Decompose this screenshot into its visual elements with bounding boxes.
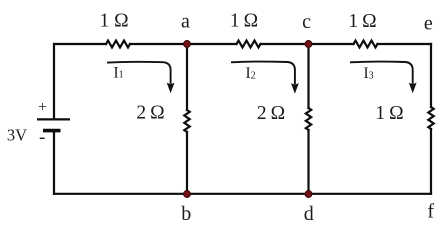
svg-text:1 Ω: 1 Ω — [99, 10, 128, 31]
current arrow I2 (loop 2, bends down toward R5) — [231, 62, 295, 84]
svg-text:-: - — [39, 127, 45, 148]
wire: branch a-b lower segment (R4 to node b) — [186, 132, 188, 194]
node b (junction dot) — [184, 191, 191, 198]
wire: bottom, node d to corner f — [309, 193, 432, 195]
arrowhead of I1 — [167, 83, 175, 94]
svg-text:a: a — [181, 11, 190, 33]
battery V1 3V: negative plate (short thick) — [43, 129, 61, 133]
svg-text:1 Ω: 1 Ω — [375, 103, 403, 124]
wire: node a to R2 — [187, 43, 237, 45]
wire: left edge, battery negative plate down to bottom corner — [53, 132, 55, 194]
wire: top, left corner to R1 — [54, 43, 106, 45]
wire: branch c-d upper segment (node c to R5) — [307, 44, 309, 108]
resistor R1 1-ohm (top left, between corner and node a) — [106, 41, 130, 48]
resistor R4 2-ohm (vertical, branch a-b) — [184, 110, 189, 132]
wire: bottom, left corner to node b — [54, 193, 187, 195]
wire: node c to R3 — [309, 43, 354, 45]
resistor R3 1-ohm (top right, between node c and node e) — [354, 41, 378, 48]
svg-text:2 Ω: 2 Ω — [257, 103, 285, 124]
svg-text:1 Ω: 1 Ω — [348, 11, 376, 32]
wire: left edge, top corner down to battery positive plate — [53, 44, 55, 118]
battery V1 3V: positive plate (long) — [37, 118, 70, 120]
resistor R6 1-ohm (vertical, branch e-f) — [428, 107, 433, 129]
wire: R1 to node a — [130, 43, 187, 45]
svg-text:b: b — [181, 203, 191, 225]
arrowhead of I3 — [409, 83, 417, 94]
wire: bottom, node b to node d — [187, 193, 309, 195]
node c (junction dot) — [305, 41, 312, 48]
svg-text:3V: 3V — [7, 126, 27, 145]
current arrow I1 (loop 1, bends down toward R4) — [107, 62, 171, 84]
wire: right edge lower segment (R6 to corner f) — [430, 129, 432, 194]
wire: branch a-b upper segment (node a to R4) — [186, 44, 188, 110]
svg-text:1 Ω: 1 Ω — [230, 10, 258, 31]
arrowhead of I2 — [291, 83, 299, 94]
resistor R5 2-ohm (vertical, branch c-d) — [306, 108, 311, 130]
wire: R2 to node c — [261, 43, 309, 45]
svg-text:2 Ω: 2 Ω — [136, 102, 164, 123]
wire: R3 to corner e — [378, 43, 432, 45]
resistor R2 1-ohm (top middle, between node a and node c) — [237, 41, 261, 48]
current arrow I3 (loop 3, bends down toward R6) — [350, 62, 413, 84]
svg-text:d: d — [304, 203, 314, 225]
svg-text:+: + — [38, 99, 47, 116]
wire: branch c-d lower segment (R5 to node d) — [307, 130, 309, 194]
node d (junction dot) — [305, 191, 312, 198]
svg-text:e: e — [424, 13, 433, 35]
wire: right edge upper segment (corner e to R6) — [430, 44, 432, 107]
svg-text:c: c — [302, 11, 311, 33]
node a (junction dot) — [184, 41, 191, 48]
svg-text:f: f — [427, 201, 434, 223]
